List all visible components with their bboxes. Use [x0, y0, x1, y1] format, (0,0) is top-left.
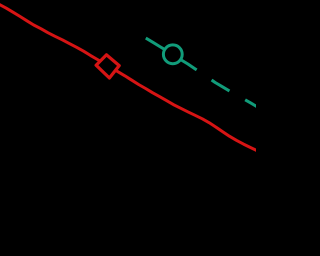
- red data line (solid, wiggly): [0, 4, 258, 151]
- teal circle marker (black face): [163, 45, 182, 64]
- teal dashed data line (wiggly): [146, 38, 258, 107]
- red diamond marker (black face): [96, 55, 119, 78]
